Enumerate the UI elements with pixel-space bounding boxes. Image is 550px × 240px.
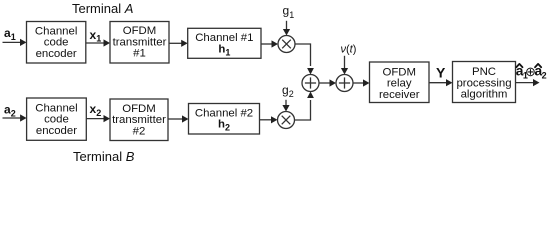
wire receiver to PNC processor [429,79,453,86]
wire adder S2 to relay receiver [353,79,370,86]
svg-text:encoder: encoder [36,48,77,60]
svg-text:2: 2 [542,70,547,80]
block U6 PNC processing algorithm [453,62,516,103]
svg-text:Terminal A: Terminal A [72,1,133,16]
svg-text:OFDM: OFDM [122,103,156,115]
block U2 OFDM transmitter #1 [110,22,169,64]
svg-text:Terminal B: Terminal B [73,149,135,164]
svg-text:Channel: Channel [35,102,77,114]
svg-text:ν(t): ν(t) [341,43,357,55]
svg-text:Y: Y [436,65,446,81]
svg-text:Channel #1: Channel #1 [195,32,253,44]
adder S2 [336,75,353,92]
svg-text:Channel: Channel [35,25,77,37]
wire g2 into mixer M2 [282,100,289,112]
block U3 channel code encoder (terminal B) [27,98,87,140]
wire g1 into mixer M1 [283,21,290,36]
wire noise into adder S2 [341,56,348,75]
wire encoder A to transmitter 1 [86,39,110,46]
wire transmitter 1 to channel 1 [169,40,188,47]
wire mixer M1 to adder S1 [295,44,314,75]
svg-text:transmitter: transmitter [113,36,167,48]
adder S1 [302,75,319,92]
svg-text:receiver: receiver [379,89,420,101]
svg-text:PNC: PNC [472,66,496,78]
multiplier mixer M2 [278,112,295,129]
wire mixer M2 to adder S1 [295,92,314,121]
svg-text:code: code [44,37,69,49]
svg-text:processing: processing [456,77,511,89]
svg-text:code: code [44,114,69,126]
node output label a1 xor a2 [516,64,547,81]
svg-text:encoder: encoder [36,125,77,137]
block U5 OFDM relay receiver [370,62,430,103]
block channel #1 h1 [188,28,261,58]
svg-text:transmitter: transmitter [112,114,166,126]
block channel #2 h2 [189,104,260,135]
svg-text:Channel #2: Channel #2 [195,107,253,119]
wire channel 1 to mixer M1 [261,40,278,47]
block U4 OFDM transmitter #2 [110,99,168,141]
wire transmitter 2 to channel 2 [168,115,189,122]
multiplier mixer M1 [278,36,295,53]
wire a1 input arrow [3,39,27,46]
wire a2 input arrow [3,114,27,121]
wire encoder B to transmitter 2 [86,115,110,122]
svg-text:OFDM: OFDM [123,25,157,37]
svg-text:relay: relay [387,78,412,90]
wire PNC output arrow [516,79,540,86]
wire channel 2 to mixer M2 [260,116,278,123]
wire adder S1 to adder S2 [319,79,336,86]
block U1 channel code encoder (terminal A) [27,22,86,64]
svg-text:algorithm: algorithm [461,89,508,101]
svg-text:OFDM: OFDM [382,66,416,78]
svg-text:#1: #1 [133,48,146,60]
svg-text:#2: #2 [133,125,146,137]
